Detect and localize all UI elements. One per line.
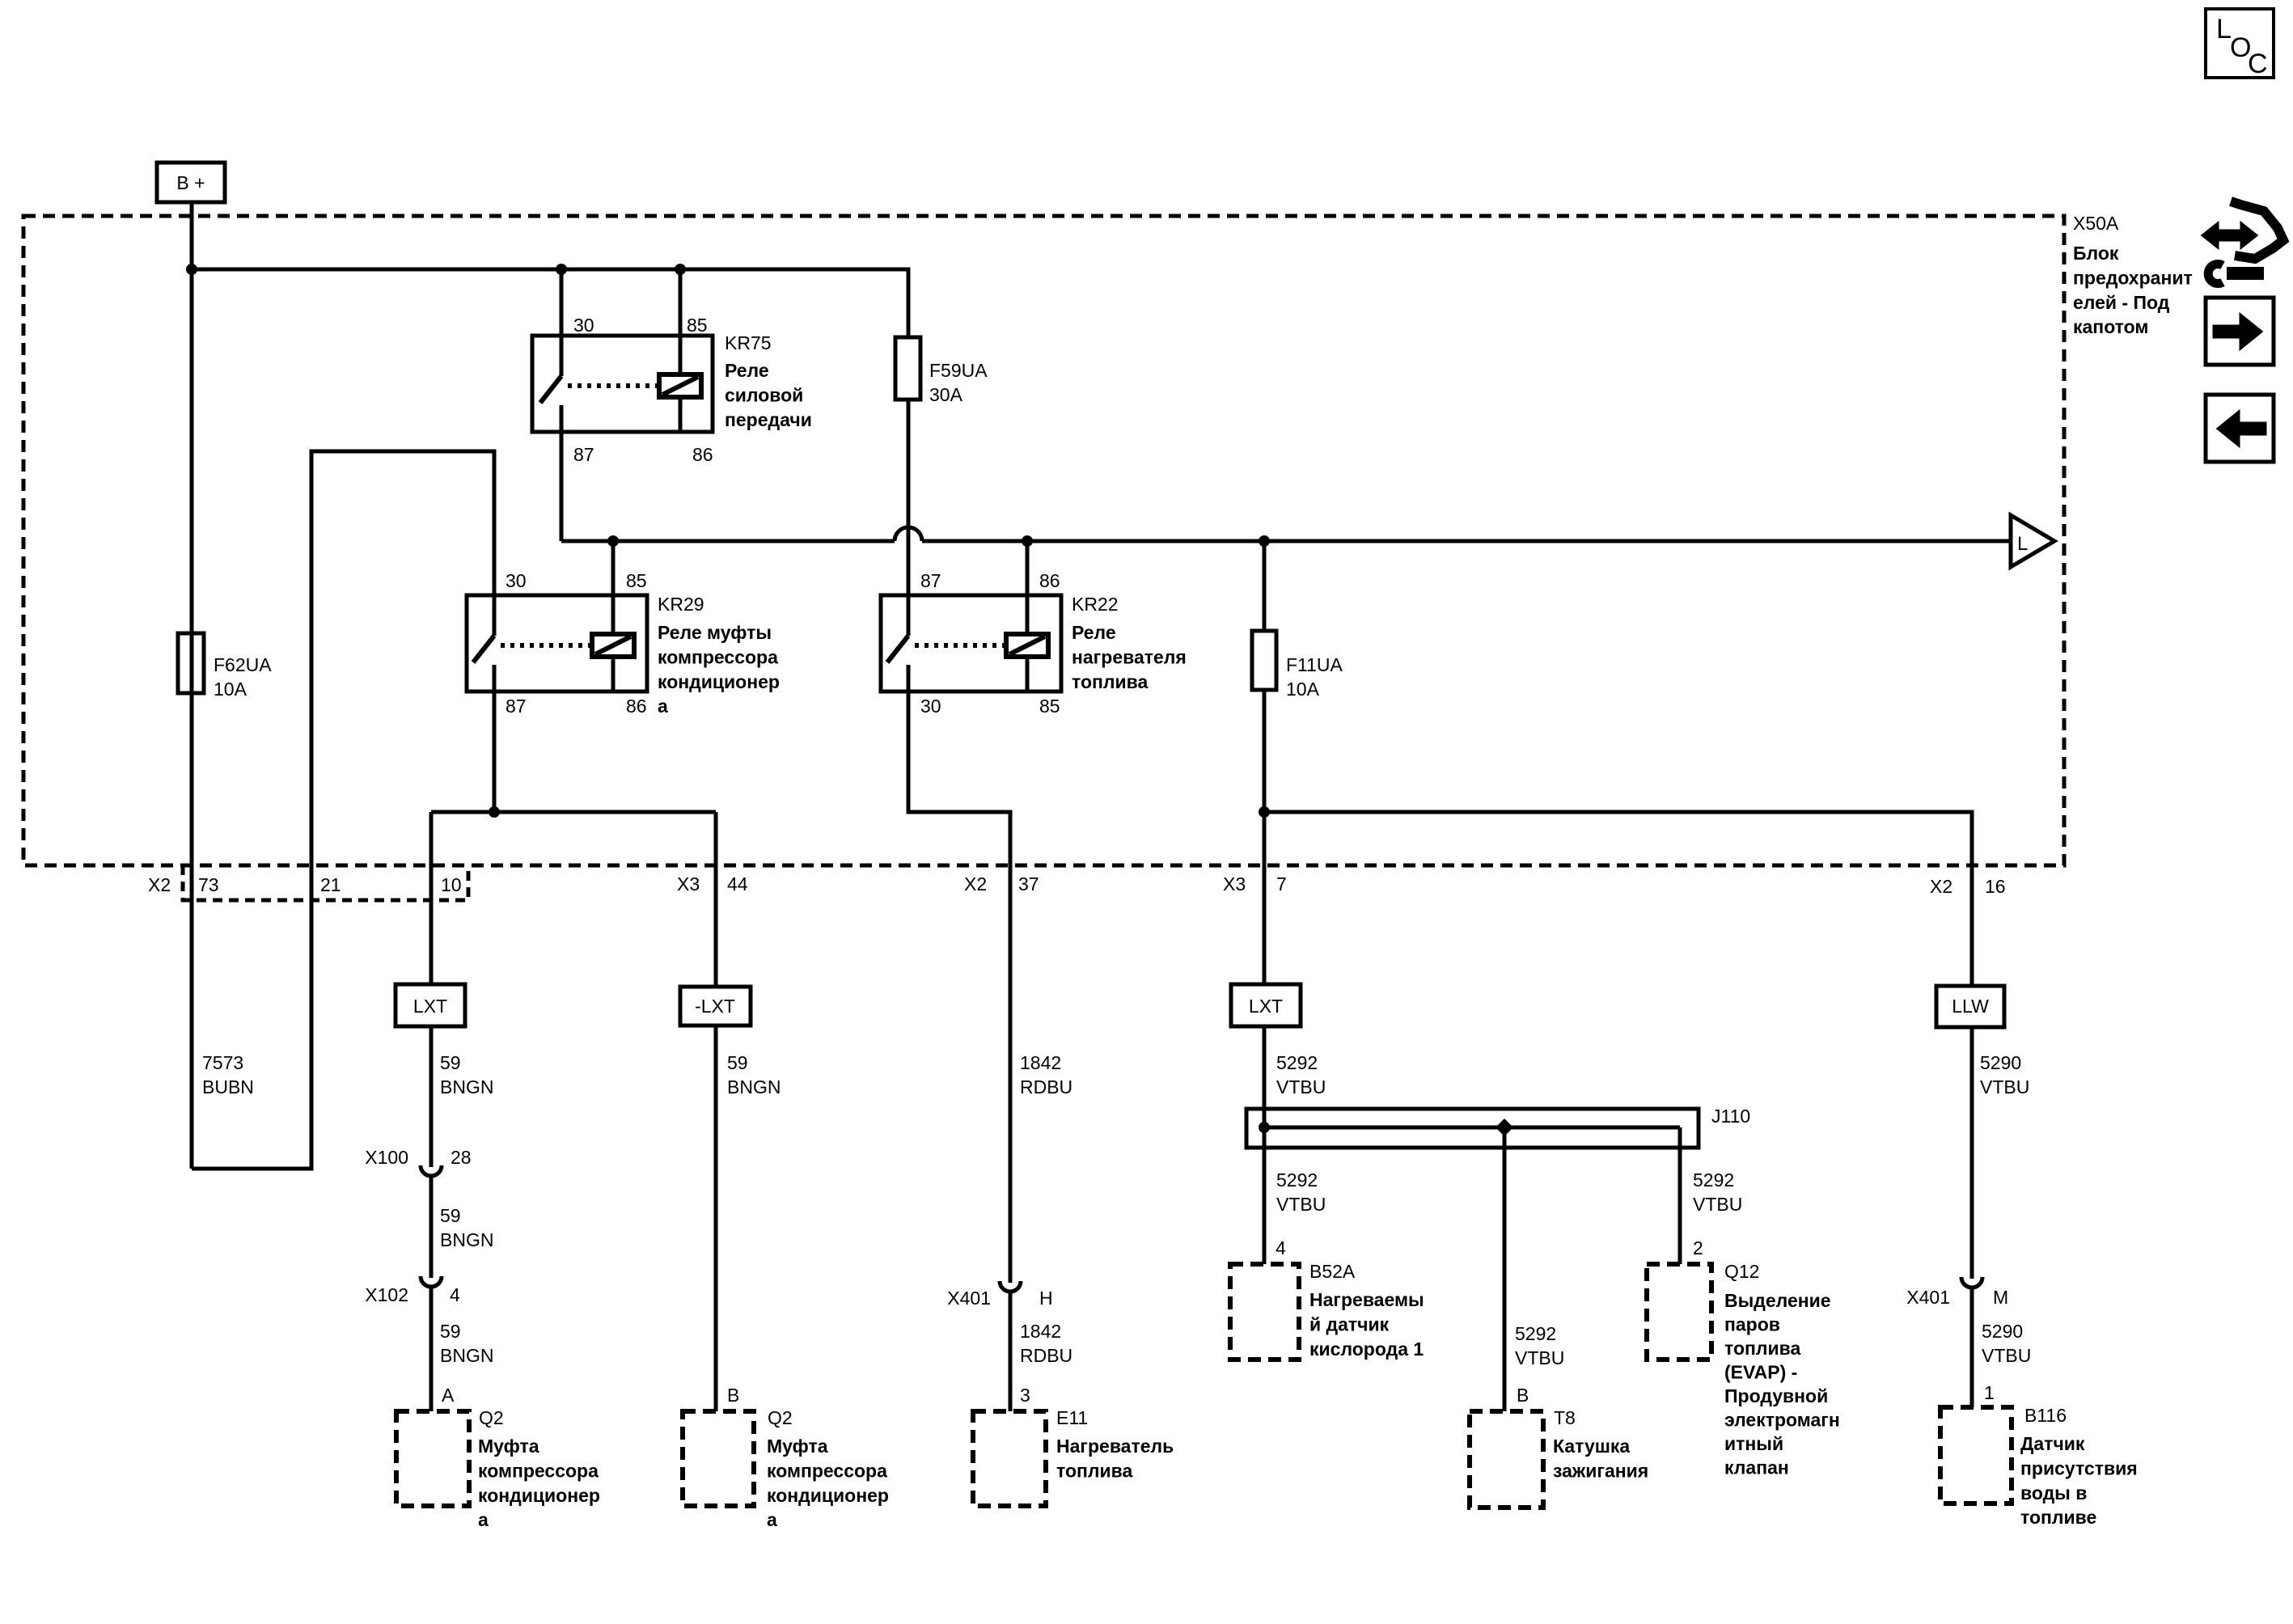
svg-text:30: 30 [920, 696, 941, 717]
svg-text:BUBN: BUBN [202, 1076, 254, 1097]
wire label 1842 RDBU lower [1020, 1321, 1072, 1366]
svg-text:59: 59 [440, 1321, 461, 1342]
svg-text:а: а [478, 1509, 489, 1530]
svg-text:28: 28 [451, 1147, 472, 1168]
svg-text:1842: 1842 [1020, 1052, 1061, 1073]
label F59UA 30A [929, 360, 988, 405]
svg-text:X2: X2 [148, 874, 171, 895]
wire LXT to J110 [1263, 1026, 1267, 1109]
svg-text:RDBU: RDBU [1020, 1345, 1072, 1366]
svg-text:86: 86 [692, 444, 713, 465]
svg-text:VTBU: VTBU [1693, 1194, 1742, 1215]
wire X100 to X102 [429, 1175, 434, 1278]
LOC reference box [2206, 9, 2274, 79]
relay KR29 [467, 595, 647, 691]
svg-text:предохранит: предохранит [2073, 267, 2193, 288]
inline connector X401 pin H [1000, 1281, 1021, 1292]
svg-text:4: 4 [1276, 1237, 1286, 1258]
wire label 59 BNGN right [727, 1052, 781, 1097]
svg-text:Муфта: Муфта [767, 1436, 828, 1457]
wire KR29 pin 85 drop [611, 541, 616, 595]
svg-text:LXT: LXT [413, 996, 447, 1017]
svg-text:топлива: топлива [1724, 1338, 1800, 1359]
backward page-reference arrow box [2206, 395, 2274, 462]
svg-text:X2: X2 [964, 873, 987, 894]
svg-text:KR75: KR75 [725, 332, 772, 353]
node junction J110 middle [1496, 1119, 1513, 1136]
splice code box LLW [1936, 986, 2004, 1027]
label X50A fuse block designation [2073, 213, 2193, 337]
wire Q2 branch header [431, 810, 716, 814]
svg-text:электромагн: электромагн [1724, 1410, 1840, 1431]
svg-text:елей - Под: елей - Под [2073, 292, 2170, 313]
splice pack J110 [1246, 1109, 1699, 1148]
svg-text:59: 59 [440, 1052, 461, 1073]
svg-text:топливе: топливе [2020, 1507, 2096, 1528]
wire B+ vertical feed 7573 BUBN [190, 202, 194, 1169]
wire label 5292 VTBU upper [1276, 1052, 1326, 1097]
node junction J110 left [1259, 1122, 1270, 1133]
node junction KR22 pin86 [1022, 535, 1033, 547]
svg-text:F62UA: F62UA [214, 654, 272, 675]
svg-text:10A: 10A [214, 679, 247, 700]
svg-text:B: B [727, 1385, 739, 1406]
svg-text:компрессора: компрессора [658, 646, 778, 667]
svg-text:7573: 7573 [202, 1052, 243, 1073]
fuse block X50A dashed enclosure [23, 216, 2064, 865]
wire label 5292 VTBU right [1693, 1169, 1742, 1215]
svg-text:Q2: Q2 [768, 1407, 793, 1428]
svg-text:21: 21 [320, 874, 341, 895]
svg-text:а: а [658, 696, 668, 717]
svg-text:VTBU: VTBU [1982, 1345, 2031, 1366]
svg-text:компрессора: компрессора [478, 1460, 599, 1481]
svg-text:X3: X3 [1223, 873, 1246, 894]
svg-text:X401: X401 [947, 1288, 991, 1309]
fuse F11UA 10A [1252, 541, 1276, 812]
svg-text:59: 59 [727, 1052, 748, 1073]
svg-text:44: 44 [727, 873, 748, 894]
svg-text:H: H [1039, 1288, 1053, 1309]
wire label 59 BNGN lower [440, 1321, 493, 1366]
wire -LXT to Q2 pin B [714, 1026, 718, 1411]
svg-text:16: 16 [1985, 876, 2006, 897]
wire J110 through to B52A pin 4 [1263, 1109, 1267, 1264]
svg-text:T8: T8 [1554, 1407, 1576, 1428]
svg-text:30: 30 [573, 315, 594, 336]
label Q12 EVAP purge valve [1724, 1261, 1840, 1478]
svg-text:E11: E11 [1056, 1407, 1088, 1428]
svg-text:KR22: KR22 [1072, 594, 1119, 615]
label KR22 relay name [1072, 594, 1187, 692]
svg-text:30A: 30A [929, 384, 963, 405]
splice code box -LXT [680, 987, 751, 1026]
wire J110 middle tap to T8 pin B [1503, 1148, 1507, 1411]
svg-text:топлива: топлива [1072, 671, 1148, 692]
label X102 4 [365, 1284, 460, 1305]
svg-text:(EVAP) -: (EVAP) - [1724, 1362, 1797, 1383]
inline connector X401 pin M [1961, 1277, 1982, 1288]
wire X102 to Q2 pin A [429, 1287, 434, 1411]
svg-text:присутствия: присутствия [2020, 1457, 2138, 1478]
off-page connector arrow L [2011, 515, 2054, 567]
svg-text:KR29: KR29 [658, 594, 704, 615]
svg-text:Катушка: Катушка [1553, 1436, 1630, 1457]
relay KR22 [881, 595, 1061, 691]
svg-text:X102: X102 [365, 1284, 408, 1305]
label X401 M [1906, 1287, 2008, 1308]
svg-text:кондиционер: кондиционер [658, 671, 780, 692]
wire X401 to B116 pin 1 [1970, 1288, 1974, 1407]
svg-text:X3: X3 [677, 873, 700, 894]
wire branch to connector X3-44 [714, 812, 718, 987]
inline connector X100 pin 28 [421, 1165, 442, 1176]
svg-text:Нагреватель: Нагреватель [1056, 1436, 1174, 1457]
svg-text:компрессора: компрессора [767, 1460, 887, 1481]
svg-text:3: 3 [1020, 1385, 1030, 1406]
label F11UA 10A [1286, 654, 1343, 700]
relay KR75 [532, 336, 713, 432]
svg-text:Продувной: Продувной [1724, 1385, 1828, 1406]
svg-text:RDBU: RDBU [1020, 1076, 1072, 1097]
svg-text:BNGN: BNGN [440, 1345, 493, 1366]
wire label 59 BNGN middle [440, 1205, 493, 1250]
svg-text:37: 37 [1018, 873, 1039, 894]
wire label 7573 BUBN [202, 1052, 254, 1097]
svg-text:J110: J110 [1711, 1106, 1750, 1127]
wire top supply bus [192, 269, 908, 337]
wire KR75 pin 30 drop [560, 269, 564, 336]
wire F11UA output to connector X3-7 [1263, 812, 1267, 984]
component Q2 A/C compressor clutch (A) [396, 1411, 469, 1506]
forward page-reference arrow box [2206, 298, 2274, 365]
battery feed B+ terminal box [157, 163, 225, 202]
node junction KR75 pin85 [675, 264, 686, 275]
label X3 7 connector [1223, 873, 1287, 894]
svg-text:10: 10 [441, 874, 462, 895]
wire label 5292 VTBU middle [1515, 1323, 1564, 1368]
svg-text:59: 59 [440, 1205, 461, 1226]
svg-text:5292: 5292 [1515, 1323, 1556, 1344]
wire KR29 pin 30 loop to connector pin 21 [192, 451, 494, 1169]
svg-text:LXT: LXT [1249, 996, 1283, 1017]
svg-text:а: а [767, 1509, 777, 1530]
svg-text:й датчик: й датчик [1309, 1313, 1390, 1334]
node junction KR75 pin30 [556, 264, 567, 275]
svg-text:4: 4 [450, 1284, 460, 1305]
label B52A oxygen sensor [1309, 1261, 1424, 1360]
label X401 H [947, 1288, 1052, 1309]
node junction Q2 branch [489, 806, 500, 818]
svg-text:клапан: клапан [1724, 1457, 1789, 1478]
component E11 fuel heater [973, 1411, 1046, 1506]
svg-text:BNGN: BNGN [440, 1076, 493, 1097]
component T8 ignition coil [1470, 1411, 1543, 1508]
svg-text:VTBU: VTBU [1980, 1076, 2029, 1097]
label E11 fuel heater [1056, 1407, 1174, 1481]
wire LLW to X401 [1970, 1027, 1974, 1279]
svg-text:паров: паров [1724, 1314, 1780, 1335]
wire label 5290 VTBU lower [1982, 1321, 2031, 1366]
svg-text:силовой: силовой [725, 384, 803, 405]
svg-text:1842: 1842 [1020, 1321, 1061, 1342]
svg-text:нагревателя: нагревателя [1072, 646, 1187, 667]
svg-text:топлива: топлива [1056, 1460, 1132, 1481]
svg-text:Q12: Q12 [1724, 1261, 1759, 1282]
svg-text:воды в: воды в [2020, 1482, 2087, 1503]
wire middle relay bus with hop over fuse wire [561, 527, 2011, 541]
svg-text:85: 85 [1039, 696, 1060, 717]
svg-text:Блок: Блок [2073, 243, 2119, 264]
svg-text:L: L [2017, 533, 2028, 555]
svg-text:87: 87 [920, 570, 941, 591]
wire LXT to X100 [429, 1026, 434, 1167]
connector X2 dashed outline pins 73 21 10 [183, 865, 468, 900]
svg-text:капотом: капотом [2073, 316, 2148, 337]
label KR75 relay name [725, 332, 812, 430]
svg-text:X2: X2 [1930, 876, 1952, 897]
wire X401 to E11 pin 3 [1009, 1292, 1013, 1411]
wire branch to connector pin 10 [429, 812, 434, 984]
svg-text:BNGN: BNGN [440, 1229, 493, 1250]
svg-text:X100: X100 [365, 1147, 408, 1168]
wire KR75 pin 85 drop [679, 269, 683, 336]
svg-text:кислорода 1: кислорода 1 [1309, 1339, 1424, 1360]
svg-text:5290: 5290 [1980, 1052, 2021, 1073]
svg-text:Муфта: Муфта [478, 1436, 539, 1457]
svg-text:5290: 5290 [1982, 1321, 2023, 1342]
svg-text:A: A [442, 1385, 455, 1406]
component Q12 EVAP purge solenoid valve [1647, 1264, 1711, 1360]
wire KR29 pin 87 down [493, 691, 497, 812]
svg-text:B: B [1517, 1385, 1529, 1406]
svg-text:Выделение: Выделение [1724, 1290, 1831, 1311]
svg-text:VTBU: VTBU [1276, 1076, 1326, 1097]
label F62UA 10A [214, 654, 272, 700]
svg-text:Q2: Q2 [479, 1407, 504, 1428]
svg-text:Датчик: Датчик [2020, 1433, 2085, 1454]
svg-text:87: 87 [506, 696, 527, 717]
svg-text:5292: 5292 [1276, 1169, 1318, 1191]
svg-text:86: 86 [1039, 570, 1060, 591]
inline connector X102 pin 4 [421, 1276, 442, 1287]
svg-text:M: M [1993, 1287, 2008, 1308]
node junction F11UA output [1259, 806, 1270, 818]
svg-text:85: 85 [626, 570, 647, 591]
svg-text:87: 87 [573, 444, 594, 465]
harness routing icon [2202, 201, 2283, 284]
svg-text:X401: X401 [1906, 1287, 1950, 1308]
svg-text:7: 7 [1276, 873, 1287, 894]
svg-text:BNGN: BNGN [727, 1076, 781, 1097]
svg-text:Реле муфты: Реле муфты [658, 622, 772, 643]
svg-text:итный: итный [1724, 1433, 1783, 1454]
wire label 59 BNGN upper [440, 1052, 493, 1097]
label X100 28 [365, 1147, 471, 1168]
label X2 37 connector [964, 873, 1039, 894]
wire KR22 pin 30 to connector X2-37 [908, 691, 1010, 1283]
svg-text:30: 30 [506, 570, 527, 591]
svg-text:5292: 5292 [1276, 1052, 1318, 1073]
label X3 44 connector [677, 873, 748, 894]
wire label 5290 VTBU upper [1980, 1052, 2029, 1097]
svg-text:кондиционер: кондиционер [478, 1485, 600, 1506]
wire label 1842 RDBU upper [1020, 1052, 1072, 1097]
svg-text:Нагреваемы: Нагреваемы [1309, 1289, 1424, 1310]
svg-text:Реле: Реле [1072, 622, 1116, 643]
svg-text:86: 86 [626, 696, 647, 717]
svg-text:73: 73 [198, 874, 219, 895]
svg-text:B52A: B52A [1309, 1261, 1356, 1282]
component B52A heated oxygen sensor 1 [1230, 1264, 1299, 1360]
svg-text:кондиционер: кондиционер [767, 1485, 889, 1506]
label X2 16 connector [1930, 876, 2006, 897]
svg-text:1: 1 [1984, 1382, 1995, 1403]
svg-text:Реле: Реле [725, 360, 769, 381]
svg-text:B +: B + [176, 172, 205, 193]
label Q2 compressor clutch (B) [767, 1407, 889, 1530]
svg-text:C: C [2248, 49, 2268, 79]
svg-text:2: 2 [1693, 1237, 1703, 1258]
fuse F62UA 10A [178, 633, 204, 693]
svg-text:5292: 5292 [1693, 1169, 1734, 1191]
wire J110 right tap to Q12 pin 2 [1678, 1148, 1682, 1264]
wire KR22 pin 86 drop [1026, 541, 1030, 595]
splice code box LXT [396, 984, 465, 1026]
svg-text:-LXT: -LXT [695, 996, 735, 1017]
wire F11UA output to connector X2-16 [1264, 812, 1972, 986]
fuse F59UA 30A [895, 337, 920, 595]
wire label 5292 VTBU left lower [1276, 1169, 1326, 1215]
svg-text:X50A: X50A [2073, 213, 2119, 234]
label Q2 compressor clutch (A) [478, 1407, 600, 1530]
svg-text:F11UA: F11UA [1286, 654, 1343, 675]
svg-text:10A: 10A [1286, 679, 1320, 700]
wire KR75 pin 87 to relay bus [560, 433, 564, 541]
label B116 water in fuel sensor [2020, 1405, 2138, 1528]
svg-text:зажигания: зажигания [1553, 1460, 1648, 1481]
svg-text:LLW: LLW [1952, 996, 1989, 1017]
label T8 ignition coil [1553, 1407, 1648, 1481]
label KR29 relay name [658, 594, 780, 717]
svg-text:85: 85 [687, 315, 708, 336]
node junction F11UA feed [1259, 535, 1270, 547]
splice code box LXT right [1231, 984, 1301, 1026]
svg-text:VTBU: VTBU [1276, 1194, 1326, 1215]
node junction KR29 pin85 [607, 535, 619, 547]
component Q2 A/C compressor clutch (B) [683, 1411, 754, 1506]
node junction B+ bus [186, 264, 197, 275]
svg-text:передачи: передачи [725, 409, 812, 430]
component B116 water in fuel sensor [1940, 1407, 2012, 1503]
svg-text:VTBU: VTBU [1515, 1347, 1564, 1368]
svg-text:B116: B116 [2024, 1405, 2067, 1426]
svg-text:F59UA: F59UA [929, 360, 988, 381]
